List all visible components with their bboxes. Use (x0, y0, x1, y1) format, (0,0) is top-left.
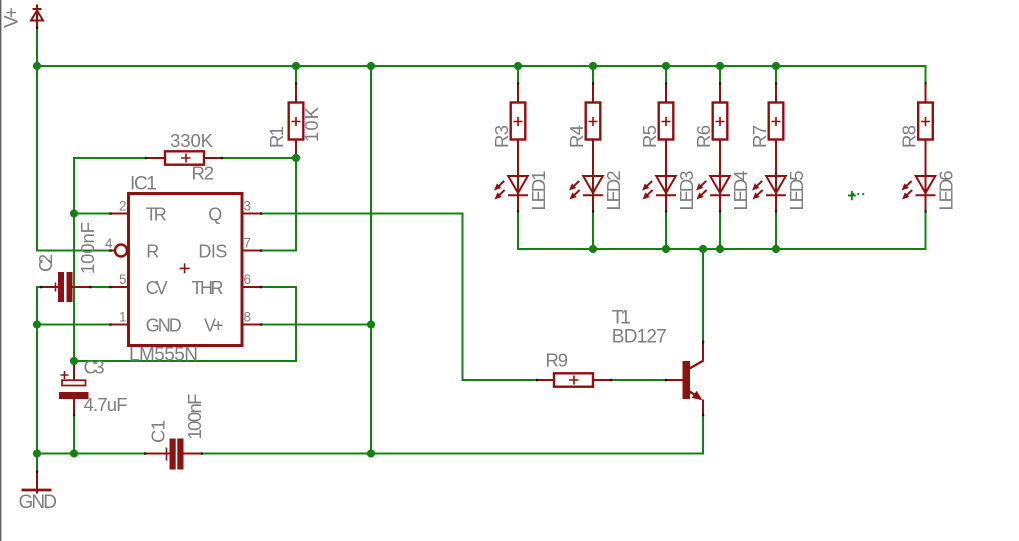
svg-text:LED6: LED6 (936, 171, 957, 211)
svg-text:R5: R5 (639, 125, 660, 148)
svg-text:R3: R3 (491, 125, 512, 148)
wire R1 top stub (295, 66, 297, 84)
svg-text:LM555N: LM555N (129, 345, 198, 366)
svg-text:100nF: 100nF (184, 394, 205, 440)
junction (662, 245, 670, 253)
svg-text:4.7uF: 4.7uF (84, 394, 128, 415)
junction (589, 245, 597, 253)
svg-text:5: 5 (119, 272, 127, 287)
junction (367, 449, 375, 457)
svg-text:LED1: LED1 (528, 171, 549, 211)
svg-text:R7: R7 (749, 125, 770, 148)
LED LED1 (494, 140, 528, 213)
IC1 pin 6 stub (242, 286, 262, 288)
wire LED bottom stubs (593, 213, 776, 250)
IC1 pin 1 stub (111, 324, 129, 326)
node continuation marks +... (848, 191, 856, 200)
svg-text:IC1: IC1 (130, 174, 157, 195)
LED LED6 (902, 140, 936, 213)
junction (70, 357, 78, 365)
junction (772, 62, 780, 70)
IC IC1 LM555N (129, 194, 243, 346)
svg-text:R2: R2 (192, 163, 215, 184)
LED LED3 (642, 140, 676, 213)
svg-text:C1: C1 (148, 420, 169, 443)
svg-text:BD127: BD127 (612, 327, 667, 348)
wire GND symbol stem (36, 454, 38, 473)
svg-text:C3: C3 (84, 357, 105, 378)
LED LED5 (752, 140, 786, 213)
svg-text:LED5: LED5 (786, 171, 807, 211)
wire LED bottom rail (518, 213, 926, 250)
wire THR loop (74, 287, 296, 361)
junction (716, 62, 724, 70)
junction (716, 245, 724, 253)
ground symbol GND (22, 472, 52, 494)
svg-text:LED2: LED2 (603, 171, 624, 211)
svg-text:4: 4 (105, 236, 113, 251)
IC1 pin 2 stub (111, 213, 129, 215)
resistor R3 (511, 84, 526, 140)
IC1 pin 5 stub (111, 286, 129, 288)
svg-text:T1: T1 (612, 308, 631, 329)
transistor T1 (667, 343, 704, 416)
wire C2 left / GND vertical / bottom GND row (37, 287, 146, 454)
junction (589, 62, 597, 70)
svg-text:DIS: DIS (198, 241, 227, 261)
wire bottom right row to emitter (203, 416, 704, 454)
IC1 pin 3 stub (242, 213, 262, 215)
junction (33, 449, 41, 457)
junction (292, 62, 300, 70)
svg-text:R9: R9 (546, 350, 569, 371)
LED LED4 (696, 140, 730, 213)
wire GND pin1 (37, 324, 111, 326)
svg-text:2: 2 (119, 199, 127, 214)
svg-text:3: 3 (244, 199, 252, 214)
junction (367, 62, 375, 70)
resistor R9 (538, 373, 612, 386)
svg-text:CV: CV (146, 278, 168, 298)
resistor R2 (147, 151, 223, 164)
wire C3 bottom to GND row (73, 416, 75, 454)
svg-text:R: R (146, 241, 159, 261)
junction (292, 154, 300, 162)
wire TR branch (74, 213, 111, 215)
wire Q output to R9 (262, 214, 538, 381)
svg-text:V+: V+ (2, 7, 23, 28)
svg-text:R8: R8 (899, 125, 920, 148)
junction (367, 320, 375, 328)
IC1 pin 8 stub (242, 324, 262, 326)
capacitor C1 (146, 439, 203, 470)
wire DIS branch (262, 158, 297, 251)
IC1 pin 4 stub and bubble (111, 250, 115, 252)
resistor R7 (769, 84, 784, 140)
svg-text:LED4: LED4 (730, 171, 751, 211)
IC1 pin 7 stub (242, 250, 262, 252)
junction (70, 449, 78, 457)
svg-text:V+: V+ (204, 316, 224, 336)
wire R2 right to R1 bottom junction (223, 157, 297, 159)
wire R9 to base (612, 379, 667, 381)
resistor R5 (659, 84, 674, 140)
svg-text:R1: R1 (266, 126, 287, 148)
svg-text:TR: TR (146, 204, 167, 224)
wire top supply rail (37, 66, 926, 84)
svg-text:6: 6 (244, 272, 252, 287)
wire V+ stem down to rail and reset branch (37, 29, 111, 251)
svg-text:R6: R6 (693, 125, 714, 148)
svg-text:10K: 10K (301, 106, 322, 142)
junction (772, 245, 780, 253)
svg-text:100nF: 100nF (77, 222, 98, 274)
svg-text:1: 1 (119, 310, 127, 325)
capacitor C2 (41, 272, 91, 302)
svg-text:C2: C2 (35, 254, 56, 272)
svg-text:GND: GND (146, 316, 182, 336)
svg-text:GND: GND (19, 492, 58, 513)
LED LED2 (569, 140, 603, 213)
resistor R8 (918, 84, 933, 140)
junction (662, 62, 670, 70)
wire-pin transition marks (36, 27, 927, 473)
wire LED column stubs (518, 66, 776, 84)
svg-text:LED3: LED3 (676, 171, 697, 211)
svg-text:Q: Q (208, 204, 222, 224)
junction (699, 245, 707, 253)
svg-text:R4: R4 (566, 125, 587, 148)
junction (33, 62, 41, 70)
wire C2 right to CV pin (91, 286, 111, 288)
capacitor C3 polarized (59, 363, 89, 416)
junction (70, 209, 78, 217)
power V+ symbol (31, 5, 43, 29)
junction (33, 320, 41, 328)
resistor R6 (713, 84, 728, 140)
resistor R1 (289, 84, 304, 158)
wire R2 left corner and TR/THR vertical (74, 158, 147, 361)
resistor R4 (586, 84, 601, 140)
wire pin8 V+ (262, 324, 372, 326)
svg-text:7: 7 (244, 236, 252, 251)
svg-text:8: 8 (244, 310, 252, 325)
wire collector to LED rail (702, 249, 704, 343)
wire V+ vertical to pin8 and bottom row (370, 66, 372, 454)
junction (514, 62, 522, 70)
svg-text:330K: 330K (170, 130, 214, 151)
svg-text:THR: THR (192, 278, 224, 298)
